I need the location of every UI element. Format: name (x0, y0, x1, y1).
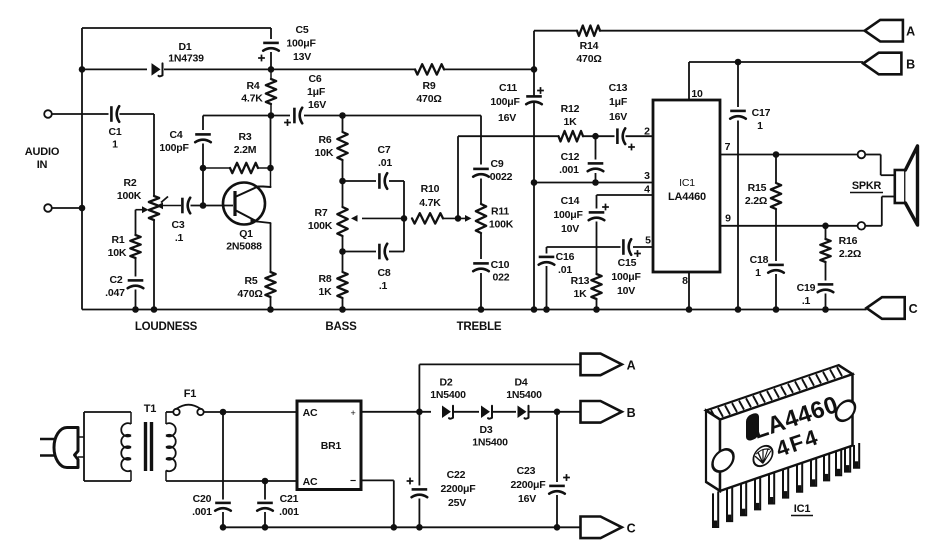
svg-text:F1: F1 (184, 388, 197, 400)
wire D3 to D4 (492, 411, 516, 413)
label C14 value 10V (561, 223, 579, 235)
svg-text:C18: C18 (750, 254, 769, 266)
label R3 value 2.2M (234, 144, 257, 156)
wire plug leads (78, 412, 131, 481)
wire C13 to pin2 (626, 135, 654, 137)
capacitor C23 (549, 486, 565, 494)
potentiometer R7 (337, 207, 347, 236)
wire C4 bottom lead (202, 144, 204, 206)
label BASS (325, 321, 357, 333)
capacitor C4 (195, 134, 211, 142)
label D2 1N5400 (430, 389, 466, 401)
svg-text:10K: 10K (108, 247, 127, 259)
svg-text:100pF: 100pF (159, 142, 189, 154)
svg-text:BR1: BR1 (321, 440, 342, 452)
svg-text:R4: R4 (246, 80, 259, 92)
capacitor C8 (379, 244, 387, 260)
resistor R9 (415, 64, 444, 74)
label C20 (193, 493, 212, 505)
label SPKR (850, 180, 883, 193)
label R2 value 100K (117, 190, 142, 202)
svg-text:B: B (627, 406, 636, 420)
wire feedback riser (x=458) (457, 136, 459, 218)
svg-text:−: − (350, 475, 356, 487)
node R13 ground junction (593, 306, 600, 313)
svg-text:1K: 1K (318, 286, 332, 298)
svg-text:R6: R6 (318, 134, 331, 146)
resistor R1 (130, 235, 140, 258)
svg-text:C8: C8 (377, 267, 390, 279)
svg-text:16V: 16V (308, 99, 326, 111)
svg-text:4: 4 (644, 184, 650, 196)
svg-text:AUDIO: AUDIO (25, 146, 60, 158)
svg-text:1: 1 (112, 139, 118, 151)
label R11 value 100K (489, 219, 514, 231)
transistor Q1 collector lead (235, 168, 271, 197)
node R2 ground junction (151, 306, 158, 313)
label R4 (246, 80, 259, 92)
label C7 (377, 144, 390, 156)
wire C16 link (546, 247, 548, 310)
label C19 (797, 282, 816, 294)
svg-text:4.7K: 4.7K (419, 197, 441, 209)
label C21 (280, 493, 299, 505)
label C14 (561, 195, 580, 207)
svg-text:R9: R9 (422, 80, 435, 92)
svg-text:1K: 1K (563, 116, 577, 128)
svg-text:A: A (906, 25, 915, 39)
label C19 value .1 (802, 295, 811, 307)
pin number 8 (682, 275, 688, 287)
wire C23 drop (556, 412, 558, 528)
transistor Q1 emitter lead (235, 210, 271, 225)
label R6 (318, 134, 331, 146)
capacitor C2 (128, 280, 144, 288)
svg-text:C14: C14 (561, 195, 580, 207)
svg-text:1: 1 (755, 267, 761, 279)
wire C7/C8 connector (x=404) (403, 181, 405, 252)
connector arrow A power (581, 354, 622, 376)
label C11 value 100uF (490, 96, 520, 108)
node C2 ground junction (132, 306, 139, 313)
node R15 junction (773, 151, 780, 158)
svg-text:B: B (906, 58, 915, 72)
node R4/C6 junction (268, 112, 275, 119)
node R4/C5/D1 junction (268, 66, 275, 73)
polarity + of C15 (634, 250, 641, 257)
label D4 1N5400 (506, 389, 542, 401)
svg-text:C12: C12 (561, 151, 580, 163)
svg-text:.001: .001 (559, 164, 579, 176)
svg-text:2200μF: 2200μF (441, 483, 477, 495)
wire pin10 riser (688, 62, 690, 100)
label C11 (499, 82, 517, 94)
node C21 junction (262, 478, 269, 485)
label R16 value 2.2ohm (839, 248, 861, 260)
svg-text:100K: 100K (117, 190, 142, 202)
node base/C4 junction (200, 202, 207, 209)
bridge rectifier BR1 box (297, 401, 361, 490)
resistor R13 (591, 274, 601, 299)
label R9 (422, 80, 435, 92)
resistor R8 (337, 272, 347, 298)
label T1 (144, 403, 157, 415)
label D3 (479, 424, 492, 436)
svg-text:25V: 25V (448, 497, 466, 509)
svg-text:C9: C9 (490, 158, 503, 170)
wire left ground rail (x=82) (81, 28, 83, 310)
node C12 pin3 junction (592, 179, 599, 186)
svg-text:022: 022 (493, 272, 510, 284)
svg-text:SPKR: SPKR (852, 180, 882, 192)
capacitor C5 (263, 43, 279, 51)
diode D2 (442, 406, 453, 419)
svg-text:R10: R10 (421, 183, 440, 195)
wiper arrow of R7 (351, 215, 404, 222)
svg-text:BASS: BASS (325, 321, 357, 333)
label C13 (609, 82, 628, 94)
label R10 value 4.7K (419, 197, 441, 209)
svg-text:D4: D4 (514, 377, 527, 389)
wire speaker top lead (865, 155, 895, 176)
node C16 ground junction (543, 306, 550, 313)
wire C1 to R2 (x=154) (153, 114, 155, 196)
wire bottom ground rail (y=309.5) (82, 309, 867, 311)
svg-text:470Ω: 470Ω (237, 288, 262, 300)
label C5 value 13V (293, 51, 311, 63)
speaker SPKR (895, 146, 918, 225)
wire R16 top lead (825, 226, 827, 239)
svg-text:C5: C5 (295, 24, 308, 36)
svg-text:IC1: IC1 (794, 503, 811, 515)
node R9/C11 junction (531, 66, 538, 73)
polarity + of C14 (602, 204, 609, 211)
label C2 (109, 274, 122, 286)
node C20 rail junction (220, 524, 227, 531)
svg-text:100K: 100K (308, 220, 333, 232)
wire R16 to C19 (825, 262, 827, 281)
ac plug (40, 428, 78, 468)
svg-text:R8: R8 (318, 273, 331, 285)
svg-text:C19: C19 (797, 282, 816, 294)
svg-text:7: 7 (725, 141, 731, 153)
resistor R10 (412, 213, 443, 223)
svg-text:C4: C4 (169, 129, 182, 141)
label C2 value .047 (105, 287, 125, 299)
wire R10 to R11 wiper (443, 215, 472, 222)
svg-text:T1: T1 (144, 403, 157, 415)
label D1 (178, 41, 191, 53)
capacitor C14 (589, 212, 605, 220)
svg-text:470Ω: 470Ω (416, 93, 441, 105)
label R5 (244, 275, 257, 287)
pin number 7 (725, 141, 731, 153)
node C8 branch junction (339, 248, 346, 255)
label A power (627, 359, 636, 373)
label R14 (580, 40, 599, 52)
svg-text:C22: C22 (447, 469, 466, 481)
node C21 rail junction (262, 524, 269, 531)
svg-text:100μF: 100μF (286, 38, 316, 50)
wire pin7 (y=154.5) (720, 154, 858, 156)
svg-text:R13: R13 (571, 275, 590, 287)
wire D1 supply rail (y=69) (82, 68, 271, 70)
label C15 value 10V (617, 285, 635, 297)
svg-text:.001: .001 (279, 506, 299, 518)
svg-text:0022: 0022 (490, 171, 513, 183)
label B (906, 58, 915, 72)
label IC1 (679, 177, 695, 189)
label B power (627, 406, 636, 420)
wire C12 link (595, 136, 597, 182)
svg-text:A: A (627, 359, 636, 373)
label Q1 (239, 228, 253, 240)
op-amp IC1 LA4460 box (653, 100, 720, 272)
node C22 junction (416, 409, 423, 416)
svg-text:D3: D3 (479, 424, 492, 436)
resistor R5 (265, 272, 275, 297)
label C22 value 25V (448, 497, 466, 509)
svg-text:C16: C16 (556, 251, 575, 263)
node C19 ground junction (822, 306, 829, 313)
svg-text:D2: D2 (439, 377, 452, 389)
svg-text:C: C (909, 302, 918, 316)
connector arrow B (863, 53, 901, 75)
wire pin4 (597, 195, 654, 209)
potentiometer R2 (149, 196, 159, 220)
svg-text:C1: C1 (108, 126, 121, 138)
wire C14 to R13 (596, 222, 598, 275)
pin number 9 (725, 213, 731, 225)
tap arrow of R2 loudness tap (136, 206, 149, 213)
label R2 (123, 177, 136, 189)
node C23 junction (554, 409, 561, 416)
wire power ground rail (y=527.3) (223, 526, 581, 528)
diode D3 (481, 406, 492, 419)
svg-text:2: 2 (644, 126, 650, 138)
svg-text:Q1: Q1 (239, 228, 253, 240)
svg-text:16V: 16V (518, 493, 536, 505)
svg-text:.1: .1 (175, 232, 184, 244)
wire supply to R9 (271, 68, 415, 70)
wire speaker bottom lead (865, 197, 895, 226)
wire to connector A (y=30.7) (534, 30, 865, 32)
svg-text:+: + (350, 408, 355, 418)
wire A-rail corner (x=534) (533, 31, 535, 310)
label C10 value .022 (493, 272, 510, 284)
svg-text:.01: .01 (378, 157, 392, 169)
node C17 ground junction (735, 306, 742, 313)
wire R12 to C13 (583, 135, 615, 137)
svg-text:C11: C11 (499, 82, 517, 94)
label TREBLE (457, 321, 502, 333)
svg-text:C10: C10 (491, 259, 510, 271)
polarity + of C23 (563, 474, 570, 481)
label C12 value .001 (559, 164, 579, 176)
capacitor C20 (215, 503, 231, 511)
wire secondary bottom lead (166, 480, 297, 482)
wire BR1 minus output (361, 480, 394, 527)
label C13 value 1uF (609, 96, 628, 108)
label R13 value 1K (573, 288, 587, 300)
svg-text:C21: C21 (280, 493, 299, 505)
connector arrow C power (581, 517, 622, 539)
capacitor C9 (473, 169, 489, 177)
wire R9 to C11 node (444, 68, 534, 70)
wire audio input ground lead (52, 207, 82, 209)
svg-text:470Ω: 470Ω (576, 53, 601, 65)
label C6 value 1uF (307, 86, 326, 98)
svg-text:R2: R2 (123, 177, 136, 189)
wire C2 to ground rail (135, 290, 137, 310)
wire pin8 stub (688, 272, 690, 310)
node C17 junction (735, 59, 742, 66)
terminal speaker top (858, 151, 866, 159)
svg-text:1N5400: 1N5400 (506, 389, 542, 401)
wire C4 top lead (202, 116, 204, 131)
svg-text:100μF: 100μF (553, 209, 583, 221)
svg-text:100μF: 100μF (490, 96, 520, 108)
svg-text:C17: C17 (752, 107, 771, 119)
svg-text:R12: R12 (561, 103, 580, 115)
label C8 value .1 (379, 280, 388, 292)
wire pin10 to connector B (y=62) (689, 61, 863, 63)
label BR1 AC bottom (303, 476, 318, 488)
capacitor C12 (588, 163, 604, 171)
label C8 (377, 267, 390, 279)
node pin3 rail junction (531, 179, 538, 186)
label D4 (514, 377, 527, 389)
node input ground junction (79, 205, 86, 212)
label BR1 minus (350, 475, 356, 487)
label D2 (439, 377, 452, 389)
svg-text:C2: C2 (109, 274, 122, 286)
wire feedback top (y=136) (458, 135, 557, 137)
resistor R4 (266, 69, 276, 115)
svg-text:.001: .001 (192, 506, 212, 518)
label C18 value 1 (755, 267, 761, 279)
label D3 1N5400 (472, 437, 508, 449)
label C3 value .1 (175, 232, 184, 244)
node R8 ground junction (339, 306, 346, 313)
capacitor C7 (379, 173, 387, 189)
node pin8 ground junction (686, 306, 693, 313)
resistor R12 (559, 131, 584, 141)
capacitor C6 (294, 108, 302, 124)
transistor Q1 base bar (233, 191, 236, 216)
IC1 package drawing LA4460 (706, 359, 855, 495)
svg-text:C7: C7 (377, 144, 390, 156)
svg-text:AC: AC (303, 407, 318, 419)
svg-text:LOUDNESS: LOUDNESS (135, 321, 198, 333)
wire C5 top lead (270, 28, 272, 39)
resistor R14 (577, 26, 600, 36)
capacitor C16 (539, 257, 555, 265)
label C6 (308, 73, 321, 85)
transformer T1 primary winding (121, 412, 131, 481)
wire C3 to base (191, 205, 234, 207)
node R5 ground junction (267, 306, 274, 313)
svg-text:R14: R14 (580, 40, 599, 52)
wire C8 branch (343, 251, 405, 253)
wire treble corner (x=481) (480, 116, 482, 310)
terminal audio input top (44, 110, 52, 118)
label C4 value 100pF (159, 142, 189, 154)
label C22 value 2200uF (441, 483, 477, 495)
label C5 value 100uF (286, 38, 316, 50)
label C18 (750, 254, 769, 266)
svg-text:R7: R7 (314, 207, 327, 219)
wire R15 top lead (775, 155, 777, 184)
wire C5 bottom lead (270, 52, 272, 69)
label C14 value 100uF (553, 209, 583, 221)
connector arrow B power (581, 401, 622, 423)
capacitor C15 (623, 239, 631, 255)
svg-text:.047: .047 (105, 287, 125, 299)
svg-text:16V: 16V (609, 111, 627, 123)
capacitor C1 (111, 106, 119, 122)
capacitor C19 (818, 284, 834, 292)
svg-text:5: 5 (645, 235, 651, 247)
terminal audio input bottom (44, 204, 52, 212)
svg-text:2.2Ω: 2.2Ω (839, 248, 861, 260)
wire C18 to ground (775, 274, 777, 310)
svg-text:C20: C20 (193, 493, 212, 505)
wire collector load (x=270) (270, 116, 272, 169)
label R7 (314, 207, 327, 219)
node C18 ground junction (773, 306, 780, 313)
diode D1 (152, 63, 163, 76)
label C3 (171, 219, 184, 231)
label C16 value .01 (558, 264, 572, 276)
label BR1 plus (350, 408, 355, 418)
node C11 ground junction (531, 306, 538, 313)
node C12 junction (592, 133, 599, 140)
label C7 value .01 (378, 157, 392, 169)
svg-text:C13: C13 (609, 82, 628, 94)
wire R15 to C18 (775, 209, 777, 261)
potentiometer R11 (476, 204, 486, 233)
label C22 (447, 469, 466, 481)
label BR1 AC top (303, 407, 318, 419)
diode D4 (518, 406, 529, 419)
svg-text:1: 1 (757, 120, 763, 132)
polarity + of C5 (258, 55, 265, 62)
svg-text:10: 10 (691, 88, 703, 100)
label C20 value .001 (192, 506, 212, 518)
pin number 3 (644, 170, 650, 182)
label C9 value .0022 (490, 171, 513, 183)
wire C19 to ground (825, 294, 827, 310)
label R11 (491, 206, 509, 218)
label C23 value 2200uF (511, 479, 547, 491)
node C22 rail junction (416, 524, 423, 531)
node BR1 minus rail junction (391, 524, 398, 531)
wire to connector A power (419, 364, 580, 411)
pin number 4 (644, 184, 650, 196)
resistor R15 (771, 183, 781, 209)
node D1 rail junction on left rail (79, 66, 86, 73)
svg-text:R11: R11 (491, 206, 509, 218)
pin number 2 (644, 126, 650, 138)
label BR1 (321, 440, 342, 452)
polarity + of C13 (628, 144, 635, 151)
label R3 (238, 131, 251, 143)
resistor R6 (337, 132, 347, 160)
node feedback junction (455, 215, 462, 222)
label R1 (111, 234, 124, 246)
svg-text:16V: 16V (498, 112, 516, 124)
